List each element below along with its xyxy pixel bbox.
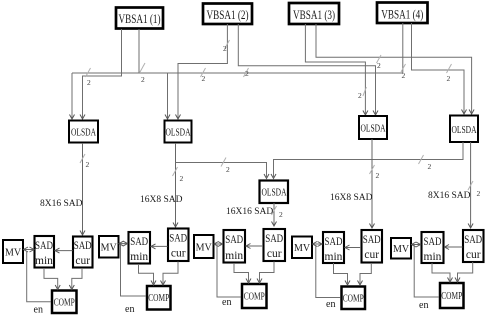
label 16X16 SAD: [226, 207, 273, 217]
group 5: block SAD cur 5: [463, 230, 484, 262]
wire V1L to OLSDA1 in2: [80, 29, 122, 119]
group 2: double arrow MV2 SADmin2: [119, 241, 129, 246]
wire h1 drop to OLSDA2 in1: [165, 73, 170, 119]
svg-text:VBSA1 (1): VBSA1 (1): [119, 12, 161, 26]
group 3: block COMP3: [242, 284, 267, 308]
svg-text:en: en: [222, 297, 231, 308]
svg-text:SAD: SAD: [35, 240, 53, 252]
group 4: block SAD min 4: [323, 232, 344, 263]
svg-text:MV: MV: [294, 243, 311, 254]
block VBSA1 (4): [377, 3, 428, 24]
svg-text:2: 2: [358, 91, 362, 100]
svg-text:2: 2: [279, 210, 283, 219]
svg-text:SAD: SAD: [363, 234, 381, 246]
group 4: wire SADmin4 to COMP4: [334, 263, 351, 285]
svg-text:min: min: [35, 255, 53, 267]
label 16X8 SAD right: [330, 193, 373, 203]
svg-text:cur: cur: [171, 248, 186, 260]
svg-text:MV: MV: [101, 243, 118, 254]
svg-text:16X8 SAD: 16X8 SAD: [140, 195, 183, 205]
wire bus h1: [72, 72, 403, 74]
wire V2R to OLSDA3 in2: [238, 24, 378, 115]
slash and width 2 on OLSDA4 output: [468, 181, 481, 198]
svg-text:SAD: SAD: [424, 236, 442, 248]
wire OLSDA1 output to SAD cur 1: [80, 143, 85, 235]
svg-text:2: 2: [180, 174, 184, 183]
group 3: wire enable to COMP3: [217, 245, 241, 297]
svg-text:OLSDA: OLSDA: [361, 124, 387, 135]
wire OLSDA2 output to SAD cur 2: [173, 143, 178, 227]
group 5: wire SADcur5 to COMP5: [455, 262, 473, 282]
slash and width 2 on V4R line: [447, 64, 452, 83]
svg-text:2: 2: [402, 71, 406, 80]
svg-text:VBSA1 (3): VBSA1 (3): [293, 8, 335, 22]
svg-text:16X8 SAD: 16X8 SAD: [330, 193, 373, 203]
group 5: double arrow MV5 SADmin5: [411, 242, 421, 247]
slash and width 2 at V4L h1 corner: [401, 64, 406, 80]
group 5: block COMP5: [440, 283, 464, 308]
svg-text:2: 2: [87, 78, 91, 87]
svg-text:2: 2: [223, 44, 227, 53]
group 4: block SAD cur 4: [362, 230, 383, 263]
wire OLSDA5 output to SAD cur 3: [272, 203, 277, 226]
svg-text:MV: MV: [393, 244, 410, 255]
svg-text:cur: cur: [364, 249, 379, 261]
group 1: wire enable to COMP1: [27, 251, 51, 302]
group 3: double arrow MV3 SADmin3: [214, 242, 224, 247]
svg-text:OLSDA: OLSDA: [71, 128, 97, 139]
group 2: arrow SADcur2 to SADmin2: [151, 244, 168, 249]
wire V4L joins bus h1: [402, 23, 404, 73]
group 5: wire enable to COMP5: [414, 245, 439, 297]
slash and width 2 on OLSDA3 in2 corner: [377, 55, 382, 70]
slash and width 2 on h1 at V2R: [244, 68, 250, 78]
group 2: wire SADmin2 to COMP2: [139, 264, 157, 285]
group 4: arrow SADcur4 to SADmin4: [345, 245, 362, 250]
svg-text:COMP: COMP: [54, 298, 75, 309]
block OLSDA5 middle 16x16: [260, 181, 289, 204]
group 4: wire enable to COMP4: [316, 245, 341, 298]
svg-text:SAD: SAD: [225, 234, 243, 246]
slash and width 2 on OLSDA3 in1 drop: [358, 87, 366, 100]
group 2: wire enable to COMP2: [121, 245, 147, 297]
block OLSDA4: [450, 116, 478, 143]
group 2: wire SADcur2 to COMP2: [161, 262, 179, 286]
group 1: block MV1: [3, 240, 23, 263]
svg-text:OLSDA: OLSDA: [166, 128, 192, 139]
group 2: block SAD cur 2: [168, 229, 189, 262]
group 5: wire SADmin5 to COMP5: [432, 263, 453, 282]
group 2: block COMP2: [147, 286, 171, 310]
slash and width 2 on OLSDA1 output: [80, 154, 90, 169]
svg-text:MV: MV: [5, 248, 22, 259]
svg-text:8X16 SAD: 8X16 SAD: [40, 199, 83, 209]
svg-text:en: en: [125, 304, 134, 315]
svg-text:SAD: SAD: [74, 240, 92, 252]
group 5: label en: [419, 300, 428, 311]
svg-text:OLSDA: OLSDA: [452, 125, 478, 136]
group 1: block SAD min 1: [35, 236, 55, 268]
group 1: wire SADcur1 to COMP1: [69, 268, 82, 290]
block VBSA1 (3): [289, 3, 339, 24]
svg-text:SAD: SAD: [464, 234, 482, 246]
svg-text:2: 2: [428, 162, 432, 171]
block VBSA1 (1): [116, 8, 163, 29]
svg-text:2: 2: [377, 61, 381, 70]
group 3: label en: [222, 297, 231, 308]
svg-text:MV: MV: [196, 243, 213, 254]
svg-text:SAD: SAD: [130, 236, 148, 248]
group 1: block COMP1: [52, 291, 77, 314]
svg-text:2: 2: [202, 74, 206, 83]
block OLSDA1: [69, 121, 98, 143]
group 2: label en: [125, 304, 134, 315]
svg-text:COMP: COMP: [148, 293, 169, 304]
slash and width 2 on V1R: [140, 63, 145, 84]
svg-text:VBSA1 (2): VBSA1 (2): [207, 8, 249, 22]
group 4: block MV4: [292, 237, 312, 259]
svg-text:COMP: COMP: [343, 294, 364, 305]
svg-text:SAD: SAD: [169, 233, 187, 245]
svg-text:min: min: [225, 250, 243, 262]
group 2: block SAD min 2: [129, 232, 151, 264]
svg-text:VBSA1 (4): VBSA1 (4): [381, 8, 423, 22]
slash and width 2 near OLSDA1 feed: [86, 68, 92, 87]
group 1: label en: [34, 305, 43, 316]
svg-text:en: en: [326, 299, 335, 310]
svg-text:SAD: SAD: [265, 233, 283, 245]
group 2: block MV2: [99, 236, 119, 258]
svg-text:min: min: [424, 251, 442, 263]
svg-text:COMP: COMP: [244, 292, 265, 303]
block VBSA1 (2): [203, 4, 252, 25]
wire V3R to OLSDA4 in2: [316, 24, 474, 114]
group 3: block SAD cur 3: [264, 229, 286, 261]
svg-text:8X16 SAD: 8X16 SAD: [428, 191, 471, 201]
group 5: block MV5: [391, 238, 411, 259]
group 1: wire SADmin1 to COMP1: [44, 268, 60, 290]
slash and width 2 on OLSDA2 output: [173, 167, 184, 183]
group 4: label en: [326, 299, 335, 310]
block OLSDA3: [359, 116, 387, 139]
label 16X8 SAD left: [140, 195, 183, 205]
wire OLSDA3 output to SAD cur 4: [370, 139, 375, 228]
slash and width 2 on OLSDA2 branch: [221, 158, 230, 175]
group 5: block SAD min 5: [422, 232, 444, 263]
svg-text:2: 2: [245, 69, 249, 78]
svg-text:2: 2: [86, 160, 90, 169]
svg-text:2: 2: [141, 75, 145, 84]
wire OLSDA4 branch to OLSDA5 in2: [271, 142, 463, 179]
label 8X16 SAD left: [40, 199, 83, 209]
group 3: arrow SADcur3 to SADmin3: [246, 244, 264, 249]
wire h1 drop to OLSDA1 in1: [70, 73, 75, 119]
svg-text:cur: cur: [75, 255, 90, 267]
group 4: wire SADcur4 to COMP4: [358, 263, 372, 285]
group 3: wire SADcur3 to COMP3: [257, 262, 274, 284]
label 8X16 SAD right: [428, 191, 471, 201]
group 5: arrow SADcur5 to SADmin5: [444, 245, 463, 250]
group 4: double arrow MV4 SADmin4: [312, 242, 323, 247]
wire V2L to OLSDA2 in2: [176, 24, 228, 119]
wire V4R to OLSDA4 in1: [412, 23, 467, 114]
svg-text:COMP: COMP: [441, 291, 462, 302]
svg-text:2: 2: [226, 165, 230, 174]
group 3: block SAD min 3: [224, 230, 246, 263]
svg-text:16X16 SAD: 16X16 SAD: [226, 207, 273, 217]
svg-text:cur: cur: [267, 248, 282, 260]
block OLSDA2: [165, 121, 192, 143]
slash and width 2 on h1 mid: [201, 68, 206, 83]
wire V1R into bus h1: [138, 29, 140, 73]
svg-text:OLSDA: OLSDA: [262, 188, 288, 199]
svg-text:SAD: SAD: [325, 236, 343, 248]
svg-text:2: 2: [376, 171, 380, 180]
group 3: block MV3: [194, 235, 214, 258]
slash and width 2 on OLSDA5 output: [272, 206, 284, 219]
svg-text:2: 2: [477, 189, 481, 198]
group 1: arrow SADcur1 to SADmin1: [55, 248, 73, 253]
svg-text:min: min: [325, 251, 343, 263]
wire V3L to OLSDA3 in1: [305, 24, 368, 115]
svg-text:cur: cur: [466, 249, 481, 261]
svg-text:en: en: [419, 300, 428, 311]
group 4: block COMP4: [342, 287, 366, 310]
wire OLSDA2 branch to OLSDA5 in1: [176, 163, 270, 179]
svg-text:min: min: [130, 251, 148, 263]
svg-text:en: en: [34, 305, 43, 316]
slash and width 2 on OLSDA3 output: [370, 165, 380, 180]
slash and width 2 on V2L: [223, 40, 230, 53]
group 3: wire SADmin3 to COMP3: [234, 263, 251, 283]
slash and width 2 on OLSDA4 branch: [419, 155, 432, 171]
svg-text:2: 2: [447, 74, 451, 83]
group 1: block SAD cur 1: [73, 237, 93, 268]
wire OLSDA4 output to SAD cur 5: [468, 142, 473, 228]
group 1: double arrow MV1 SADmin1: [23, 247, 34, 252]
